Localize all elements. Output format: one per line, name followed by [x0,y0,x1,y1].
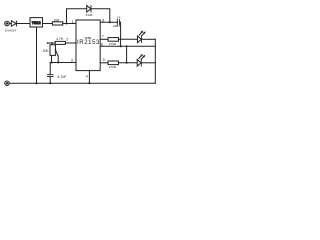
wire pin6 row [100,45,155,47]
svg-text:4148: 4148 [86,13,93,17]
svg-text:IR2153: IR2153 [77,40,100,46]
potentiometer 10K [50,45,55,56]
svg-text:3: 3 [71,59,73,63]
svg-text:7: 7 [102,35,104,39]
svg-text:4.7K: 4.7K [56,37,64,41]
svg-text:1N4007: 1N4007 [5,29,17,33]
LED D3 [138,36,142,43]
node junctions bottom [36,82,38,84]
wire [65,42,76,44]
right rail [154,39,156,83]
svg-text:7812: 7812 [32,20,42,25]
bottom rail [9,82,155,84]
wire [119,62,138,64]
resistor 4.7K [55,41,65,44]
wire [141,62,155,64]
wire [17,23,30,25]
terminal input bottom [5,81,9,85]
wire [119,38,138,40]
wire [120,22,121,46]
svg-text:6: 6 [101,43,103,47]
node VS junctions [120,45,122,47]
wire [142,38,156,40]
wire VS drop [126,46,128,63]
wire pot bottom [51,55,53,62]
svg-text:8: 8 [102,19,104,23]
node CT junction [51,62,53,64]
diode D2 4148 [87,6,91,13]
svg-text:5: 5 [103,58,105,62]
node VB junction [109,21,111,23]
diode D1 1N4007 [11,21,16,26]
svg-text:4: 4 [86,74,88,78]
capacitor 4.7uF [49,63,51,75]
resistor 270R lower [108,61,119,65]
wire pin7 row [100,38,108,40]
wire pin2 row [48,42,56,44]
wire pin5 row [100,62,108,64]
wire [63,23,76,25]
svg-text:10K: 10K [43,49,50,53]
svg-text:270R: 270R [109,65,117,69]
wire pin3 row [50,62,76,64]
svg-text:220n: 220n [113,24,120,28]
ground wire 7812 [36,27,38,83]
regulator 7812 [30,18,43,27]
svg-text:4.7uF: 4.7uF [58,75,67,79]
wire [67,9,87,24]
svg-text:10R: 10R [53,18,60,22]
resistor 10R [52,22,62,25]
wire [9,23,11,25]
terminal input top [5,21,10,26]
svg-text:270R: 270R [109,42,117,46]
IC U1 IR2153 [76,20,100,71]
wire pin4 [88,71,90,84]
capacitor C4 220n [116,20,118,25]
LED D4 [137,60,141,67]
wire pin8 [100,21,117,23]
svg-text:2: 2 [66,38,68,42]
node Vcc junction [66,23,68,25]
wire [43,23,53,25]
resistor 270R upper [108,38,119,42]
svg-text:1: 1 [72,20,74,24]
svg-text:C4: C4 [117,15,121,19]
wire [91,9,110,22]
